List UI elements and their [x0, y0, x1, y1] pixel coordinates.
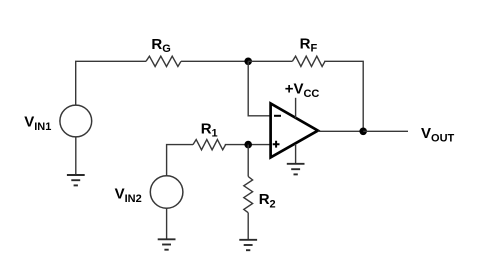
wire R_1 right to node B — [225, 144, 248, 146]
wire node B to non-inverting input — [248, 144, 269, 146]
wire R_G to node A — [181, 60, 248, 62]
output node junction — [359, 128, 367, 136]
wire op-amp bottom edge to ground — [295, 144, 297, 164]
wire R_1 left to V_IN2 top — [167, 145, 193, 176]
ground (R_2) — [239, 240, 257, 250]
wire R_2 to ground — [247, 213, 249, 240]
op-amp U1 — [271, 103, 318, 157]
wire node B down to R_2 — [247, 145, 249, 177]
resistor R_F — [292, 56, 325, 66]
node A junction — [244, 58, 252, 66]
resistor R_2 — [244, 177, 253, 213]
wire node A to R_F left — [248, 60, 292, 62]
wire V_IN2 bottom to ground — [166, 208, 168, 239]
ground (V_IN2) — [158, 239, 176, 249]
wire node A down to inverting input — [248, 61, 269, 116]
voltage source V_IN2 — [150, 176, 183, 209]
ground (V_IN1) — [67, 175, 85, 185]
wire V_IN1 top to R_G left — [76, 61, 146, 105]
wire V_IN1 bottom to ground — [75, 137, 77, 175]
resistor R_1 — [193, 140, 226, 150]
wire op-amp output to output node — [318, 130, 363, 132]
wire +VCC to op-amp top edge — [295, 98, 297, 118]
wire output node to V_OUT — [363, 130, 408, 132]
ground (op-amp) — [287, 164, 305, 175]
node B junction — [244, 141, 252, 149]
voltage source V_IN1 — [60, 105, 92, 137]
wire R_F right down to output node — [324, 61, 363, 131]
resistor R_G — [146, 56, 181, 66]
